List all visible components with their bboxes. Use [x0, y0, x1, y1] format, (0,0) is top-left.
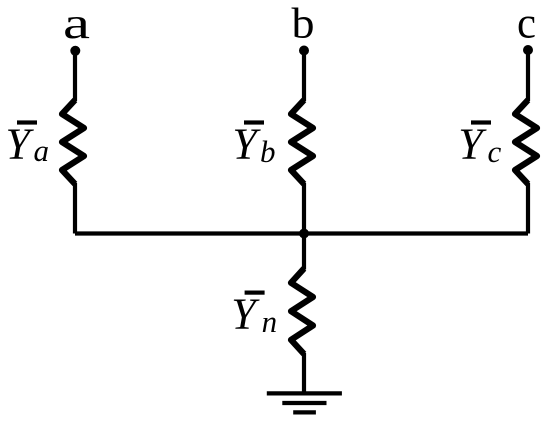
svg-text:b: b	[292, 1, 315, 48]
resistor Yb	[291, 100, 313, 184]
resistor Yc	[515, 100, 537, 184]
svg-text:Y: Y	[232, 120, 261, 169]
wire: bus node connecting all branches	[75, 231, 528, 235]
svg-text:n: n	[262, 304, 278, 339]
label Yn	[231, 290, 277, 339]
wire: junction to resistor Yn	[302, 234, 306, 270]
wire: terminal a to resistor Ya	[73, 51, 77, 101]
terminal node a	[70, 46, 80, 56]
svg-text:c: c	[488, 134, 502, 169]
resistor Ya	[62, 100, 84, 184]
svg-text:b: b	[260, 134, 276, 169]
label Ya	[6, 120, 50, 169]
svg-text:a: a	[63, 0, 90, 48]
label Yb	[232, 120, 275, 169]
svg-text:Y: Y	[6, 120, 35, 169]
terminal node b	[299, 46, 309, 56]
label Yc	[458, 120, 501, 169]
wire: resistor Yn to ground	[302, 353, 306, 392]
svg-text:c: c	[517, 0, 536, 47]
wire: resistor Ya to bus	[73, 183, 77, 234]
ground	[267, 393, 342, 412]
wire: resistor Yc to bus	[526, 183, 530, 234]
resistor Yn	[291, 269, 313, 355]
wire: terminal b to resistor Yb	[302, 51, 306, 102]
wire: terminal c to resistor Yc	[526, 51, 530, 102]
svg-text:Y: Y	[231, 290, 260, 339]
svg-text:a: a	[34, 133, 50, 168]
svg-text:Y: Y	[458, 120, 487, 169]
wire: resistor Yb to bus	[302, 183, 306, 234]
terminal node c	[523, 45, 533, 55]
junction node (neutral)	[299, 229, 309, 239]
